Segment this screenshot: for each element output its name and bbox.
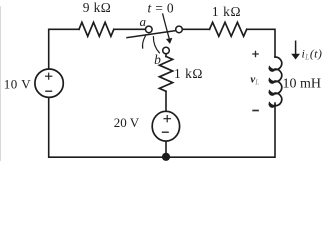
node a terminal circle: [146, 26, 153, 33]
resistor R2 1 kOhm (top): [210, 22, 247, 36]
source V2 minus sign: [162, 131, 169, 133]
inductor L1 coil: [269, 57, 281, 107]
source V1 10 V circle: [35, 69, 63, 97]
junction dot: [162, 153, 170, 161]
wire node b stub: [165, 54, 167, 57]
source V2 plus sign: [163, 115, 171, 122]
svg-text:a: a: [139, 14, 146, 29]
switch motion arrowhead: [167, 39, 172, 43]
wire resistor R2 to top-right corner: [247, 29, 275, 57]
switch blade: [127, 31, 176, 38]
svg-text:20 V: 20 V: [114, 115, 140, 130]
wire resistor R1 to node a: [114, 28, 146, 30]
resistor R3 1 kOhm (middle): [159, 57, 172, 92]
wire resistor R3 to source V2: [165, 91, 167, 112]
wire source V2 to junction: [165, 141, 167, 158]
source V1 plus sign: [45, 73, 52, 80]
node b terminal circle: [163, 47, 170, 54]
switch motion arrow to b: [163, 14, 169, 38]
svg-text:9 kΩ: 9 kΩ: [83, 0, 112, 15]
label minus (inductor voltage): [252, 110, 259, 112]
svg-text:10 V: 10 V: [4, 77, 32, 92]
svg-text:1 kΩ: 1 kΩ: [174, 66, 203, 81]
svg-text:t = 0: t = 0: [148, 0, 174, 15]
resistor R1 9 kOhm: [79, 22, 114, 36]
switch pivot terminal circle: [176, 26, 183, 33]
wire top-left segment: [49, 29, 79, 69]
svg-text:iL(t): iL(t): [302, 46, 323, 61]
source V1 minus sign: [45, 90, 52, 92]
switch motion arc near contact b: [153, 37, 159, 53]
wire switch pivot to resistor R2: [182, 28, 209, 30]
svg-text:10 mH: 10 mH: [283, 77, 322, 92]
scan artifact left edge: [0, 6, 2, 161]
label plus (inductor voltage): [252, 51, 259, 58]
wire inductor to bottom-right corner: [166, 103, 275, 157]
inductor current arrow i_L(t): [292, 41, 299, 59]
switch motion arc near contact a: [143, 36, 146, 48]
wire bottom-left segment: [49, 98, 166, 158]
svg-text:1 kΩ: 1 kΩ: [212, 4, 241, 19]
source V2 20 V circle: [152, 111, 179, 141]
svg-text:b: b: [154, 52, 161, 67]
